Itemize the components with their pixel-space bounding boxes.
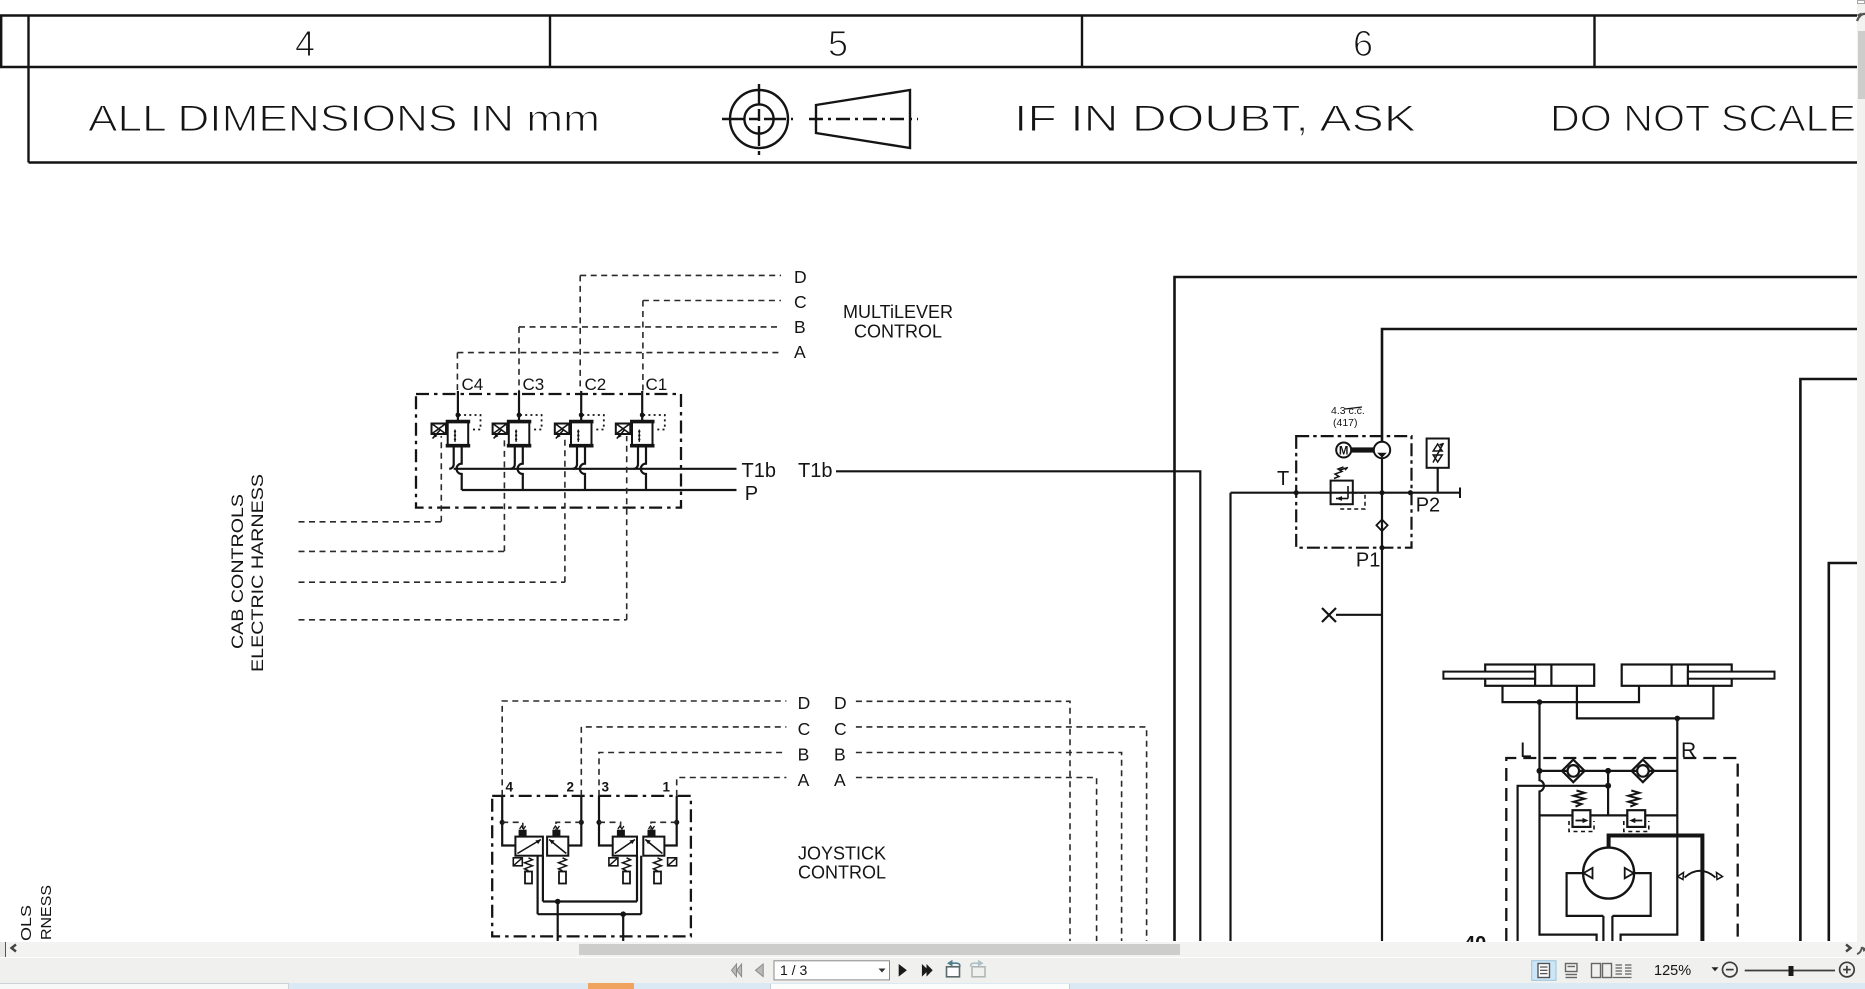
svg-text:C: C — [794, 292, 807, 312]
svg-text:B: B — [798, 745, 810, 765]
svg-text:MULTiLEVER: MULTiLEVER — [843, 302, 953, 322]
svg-text:CAB CONTROLS: CAB CONTROLS — [229, 494, 247, 649]
svg-text:T: T — [1277, 468, 1289, 490]
svg-text:RNESS: RNESS — [39, 885, 55, 940]
svg-text:B: B — [794, 317, 806, 337]
svg-text:A: A — [794, 342, 806, 362]
svg-text:125%: 125% — [1654, 963, 1691, 979]
svg-text:2: 2 — [567, 780, 575, 795]
svg-text:M: M — [1339, 446, 1349, 458]
svg-text:4: 4 — [506, 780, 514, 795]
svg-text:1 / 3: 1 / 3 — [780, 962, 807, 978]
svg-text:1: 1 — [663, 780, 671, 795]
svg-text:IF IN DOUBT, ASK: IF IN DOUBT, ASK — [1014, 98, 1416, 139]
svg-text:D: D — [794, 267, 807, 287]
svg-text:P2: P2 — [1416, 495, 1440, 517]
svg-text:P: P — [745, 483, 758, 505]
svg-text:(417): (417) — [1333, 417, 1358, 429]
svg-text:C3: C3 — [523, 375, 545, 394]
svg-text:C: C — [798, 719, 811, 739]
svg-text:A: A — [834, 770, 846, 790]
svg-text:ELECTRIC HARNESS: ELECTRIC HARNESS — [249, 474, 267, 672]
svg-text:CONTROL: CONTROL — [798, 862, 886, 882]
svg-text:C: C — [834, 719, 847, 739]
svg-text:C4: C4 — [462, 375, 484, 394]
svg-text:CONTROL: CONTROL — [854, 322, 942, 342]
svg-text:3: 3 — [602, 780, 610, 795]
svg-text:T1b: T1b — [798, 460, 832, 482]
svg-text:A: A — [798, 770, 810, 790]
svg-text:D: D — [834, 693, 847, 713]
svg-text:D: D — [798, 693, 811, 713]
svg-text:T1b: T1b — [742, 460, 776, 482]
svg-text:P1: P1 — [1356, 550, 1380, 572]
svg-text:JOYSTICK: JOYSTICK — [798, 844, 886, 864]
svg-text:B: B — [834, 745, 846, 765]
svg-text:4: 4 — [295, 23, 315, 64]
svg-text:C1: C1 — [646, 375, 668, 394]
svg-text:6: 6 — [1353, 23, 1373, 64]
svg-text:C2: C2 — [585, 375, 607, 394]
svg-text:ALL DIMENSIONS IN mm: ALL DIMENSIONS IN mm — [88, 98, 600, 139]
svg-text:DO NOT SCALE: DO NOT SCALE — [1550, 98, 1856, 139]
svg-text:OLS: OLS — [19, 905, 35, 941]
svg-text:5: 5 — [828, 23, 848, 64]
